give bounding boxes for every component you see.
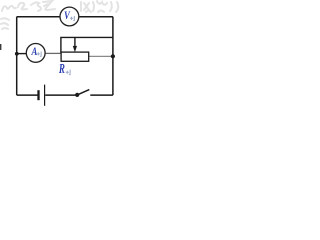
svg-text:R: R	[58, 61, 65, 76]
svg-text:V: V	[64, 9, 71, 22]
svg-text:A: A	[31, 45, 38, 58]
